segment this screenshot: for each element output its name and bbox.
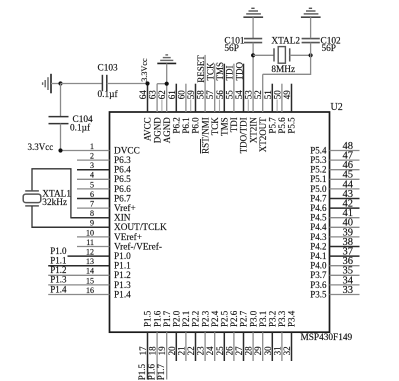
reference designator U2 [331, 102, 343, 113]
svg-text:3.3Vcc: 3.3Vcc [28, 142, 54, 152]
svg-text:15: 15 [86, 276, 94, 285]
pin 5 (P6.6) left side [77, 180, 131, 195]
pin 7 (Vref+) left side [77, 200, 136, 215]
node junction dot at 3.3Vcc/C103 [58, 81, 62, 85]
svg-text:17: 17 [138, 346, 148, 356]
wire ground to C102 [310, 17, 312, 38]
pin 8 (XIN) left side [71, 209, 131, 224]
pin 34 (P3.6) right side [310, 275, 359, 290]
svg-text:P1.5: P1.5 [143, 310, 153, 327]
svg-text:4: 4 [90, 171, 94, 180]
svg-text:VEref+: VEref+ [114, 232, 142, 243]
pin 51 (P5.7) top side [263, 84, 278, 134]
svg-text:P6.1: P6.1 [181, 117, 191, 133]
svg-text:P1.2: P1.2 [50, 265, 66, 275]
svg-text:22: 22 [186, 346, 196, 355]
wire C103 right plate to pin64 junction [107, 83, 148, 85]
svg-text:29: 29 [253, 346, 263, 356]
svg-text:XIN: XIN [114, 214, 131, 224]
svg-text:P3.1: P3.1 [258, 311, 268, 327]
pin 42 (P4.6) right side [310, 199, 359, 214]
pin 17 (P1.5) bottom side [137, 310, 153, 380]
capacitor C101 56P [224, 37, 262, 54]
svg-text:P4.6: P4.6 [310, 203, 327, 213]
pin 50 (P5.6) top side [272, 84, 287, 134]
svg-text:9: 9 [90, 219, 94, 228]
svg-text:33: 33 [343, 285, 354, 296]
svg-text:6: 6 [90, 190, 94, 199]
pin 60 (P6.1) top side [176, 84, 191, 134]
wire 3.3Vcc node down to C104 [60, 84, 62, 117]
pin 49 (P5.5) top side [282, 84, 297, 134]
pin 23 (P2.3) bottom side [196, 310, 211, 361]
svg-text:P2.4: P2.4 [210, 310, 220, 327]
svg-text:TDI: TDI [225, 66, 235, 81]
svg-text:1: 1 [90, 142, 94, 151]
svg-text:XT2OUT: XT2OUT [258, 117, 268, 152]
svg-text:3.3Vcc: 3.3Vcc [140, 58, 149, 82]
pin 59 (P6.0) top side [186, 84, 201, 134]
svg-text:P6.5: P6.5 [114, 175, 131, 185]
svg-text:25: 25 [215, 346, 225, 356]
svg-text:Vref-/VEref-: Vref-/VEref- [114, 241, 162, 252]
node junction dot at pin 1 (DVCC) [58, 148, 62, 152]
pin 14 (P1.2) left side [48, 265, 131, 281]
svg-text:P1.2: P1.2 [114, 271, 131, 281]
svg-text:23: 23 [196, 346, 206, 356]
pin 3 (P6.4) left side [77, 161, 131, 176]
svg-text:49: 49 [282, 90, 292, 100]
svg-text:52: 52 [253, 90, 263, 99]
svg-text:P2.6: P2.6 [229, 310, 239, 327]
ground (above C102) [301, 8, 321, 17]
svg-text:P4.1: P4.1 [310, 251, 326, 261]
wire XTAL1 bottom to pin 9 (XOUT/TCLK) [32, 206, 110, 227]
svg-text:8: 8 [90, 209, 94, 218]
wire pin 63 to pin 62 link [157, 83, 167, 85]
pin 52 (XT2OUT) top side [253, 74, 268, 152]
svg-text:XTAL2: XTAL2 [271, 37, 300, 47]
svg-text:AVCC: AVCC [143, 117, 153, 141]
svg-text:28: 28 [244, 346, 254, 356]
svg-text:50: 50 [272, 90, 282, 100]
svg-text:11: 11 [86, 238, 94, 247]
svg-text:27: 27 [234, 346, 244, 356]
svg-text:P6.3: P6.3 [114, 156, 131, 166]
pin 30 (P3.2) bottom side [263, 311, 278, 361]
svg-text:P2.3: P2.3 [200, 310, 210, 327]
pin 16 (P1.4) left side [48, 284, 131, 300]
svg-text:0.1µf: 0.1µf [98, 89, 119, 100]
svg-text:P4.5: P4.5 [310, 213, 327, 223]
pin 37 (P4.1) right side [310, 247, 359, 262]
svg-text:P3.0: P3.0 [248, 310, 258, 327]
svg-text:TMS: TMS [215, 62, 225, 81]
pin 20 (P2.0) bottom side [167, 310, 182, 361]
pin 22 (P2.2) bottom side [186, 311, 201, 361]
ground (above C101) [243, 8, 263, 17]
pin 32 (P3.4) bottom side [282, 310, 297, 361]
svg-text:16: 16 [86, 286, 94, 295]
svg-text:56: 56 [215, 90, 225, 100]
svg-text:AGND: AGND [162, 117, 172, 143]
capacitor C102 56P [302, 37, 341, 54]
svg-text:P6.4: P6.4 [114, 166, 131, 176]
pin 19 (P1.7) bottom side [156, 310, 172, 380]
pin 53 (XT2IN) top side [244, 55, 259, 143]
svg-text:P4.2: P4.2 [310, 241, 326, 251]
node junction dot at pin 62 (AGND) [165, 82, 169, 86]
svg-text:30: 30 [263, 346, 273, 356]
svg-text:0.1µf: 0.1µf [70, 123, 91, 134]
svg-text:58: 58 [196, 90, 206, 100]
svg-text:P3.7: P3.7 [310, 270, 327, 280]
svg-text:P1.6: P1.6 [147, 363, 157, 380]
svg-text:24: 24 [205, 346, 215, 356]
crystal XTAL2 8MHz [271, 37, 300, 75]
svg-text:13: 13 [86, 257, 94, 266]
svg-text:P1.0: P1.0 [50, 246, 67, 256]
svg-text:56P: 56P [322, 44, 336, 54]
svg-text:P2.2: P2.2 [191, 311, 201, 327]
svg-text:TCK: TCK [210, 117, 220, 136]
svg-text:5: 5 [90, 180, 94, 189]
pin 15 (P1.3) left side [48, 275, 131, 291]
svg-text:P2.0: P2.0 [172, 310, 182, 327]
pin 24 (P2.4) bottom side [205, 310, 220, 361]
pin 56 (TMS) top side [215, 62, 230, 136]
svg-text:61: 61 [167, 90, 177, 99]
wire XTAL2 right plate to node [290, 54, 311, 56]
svg-text:P6.0: P6.0 [191, 117, 201, 134]
svg-text:P5.6: P5.6 [277, 117, 287, 134]
svg-text:P1.1: P1.1 [50, 256, 66, 266]
wire ghost stubs (scan artifacts) top edge [162, 100, 277, 112]
svg-text:P3.4: P3.4 [287, 310, 297, 327]
svg-text:31: 31 [272, 346, 282, 355]
svg-text:14: 14 [86, 267, 94, 276]
pin 9 (XOUT/TCLK) left side [32, 219, 167, 234]
svg-text:P1.5: P1.5 [137, 363, 147, 380]
pin 12 (P1.0) left side [50, 246, 131, 262]
svg-text:12: 12 [86, 248, 94, 257]
svg-text:P1.3: P1.3 [114, 281, 131, 291]
svg-text:P6.7: P6.7 [114, 194, 131, 204]
svg-text:10: 10 [86, 228, 94, 237]
svg-text:P4.4: P4.4 [310, 222, 327, 232]
svg-text:51: 51 [263, 90, 273, 99]
pin 63 (DGND) top side [148, 84, 163, 144]
pin 11 (Vref-/VEref-) left side [77, 238, 162, 253]
svg-text:62: 62 [157, 90, 167, 99]
svg-text:TDO/TDI: TDO/TDI [239, 117, 249, 153]
wire node to XTAL2 left plate [253, 54, 274, 56]
pin 62 (AGND) top side [157, 84, 172, 144]
pin 29 (P3.1) bottom side [253, 311, 268, 361]
pin 39 (P4.3) right side [310, 227, 359, 242]
svg-text:32kHz: 32kHz [42, 198, 67, 208]
svg-text:Vref+: Vref+ [114, 203, 136, 214]
pin 13 (P1.1) left side [48, 256, 131, 272]
svg-text:P3.3: P3.3 [277, 310, 287, 327]
node junction dot at pin 64 (AVCC) [145, 81, 149, 85]
svg-text:60: 60 [176, 90, 186, 100]
wire rail to C103 left plate [61, 83, 103, 85]
svg-text:18: 18 [148, 346, 158, 356]
svg-text:59: 59 [186, 90, 196, 100]
svg-text:P1.7: P1.7 [156, 363, 166, 380]
svg-text:RESET: RESET [196, 55, 206, 83]
svg-text:P1.3: P1.3 [50, 275, 67, 285]
svg-text:P1.4: P1.4 [50, 284, 67, 294]
wire XT2OUT node down and over to pin 52 [263, 55, 311, 74]
pin 45 (P5.1) right side [310, 170, 359, 185]
svg-text:54: 54 [234, 90, 244, 100]
pin 43 (P4.7) right side [310, 189, 359, 204]
svg-text:P5.0: P5.0 [310, 184, 327, 194]
pin 31 (P3.3) bottom side [272, 310, 287, 361]
capacitor C103 0.1uf [98, 64, 119, 100]
pin 35 (P3.7) right side [310, 266, 359, 281]
svg-text:P3.5: P3.5 [310, 289, 327, 299]
wire C104 down to pin 1 node [60, 124, 62, 151]
svg-text:63: 63 [148, 90, 158, 100]
ground (left, rotated) [43, 74, 51, 94]
pin 61 (P6.2) top side [167, 84, 182, 134]
svg-text:32: 32 [282, 346, 292, 355]
svg-text:P4.3: P4.3 [310, 232, 327, 242]
wire C101 to node XT2IN [252, 43, 254, 56]
svg-text:DGND: DGND [152, 117, 162, 143]
svg-text:P1.1: P1.1 [114, 262, 131, 272]
pin 21 (P2.1) bottom side [176, 311, 191, 361]
pin 40 (P4.4) right side [310, 218, 359, 233]
svg-text:2: 2 [90, 152, 94, 161]
svg-text:RST/NMI: RST/NMI [200, 117, 210, 154]
svg-text:8MHz: 8MHz [271, 65, 295, 75]
svg-text:P5.2: P5.2 [310, 165, 326, 175]
svg-text:P5.7: P5.7 [268, 117, 278, 134]
svg-text:C103: C103 [98, 64, 118, 74]
pin 41 (P4.5) right side [310, 208, 359, 223]
svg-text:19: 19 [157, 346, 167, 356]
svg-text:P6.6: P6.6 [114, 185, 131, 195]
pin 47 (P5.3) right side [310, 151, 359, 166]
svg-text:P3.2: P3.2 [268, 311, 278, 327]
svg-text:XT2IN: XT2IN [248, 117, 258, 143]
pin 10 (VEref+) left side [77, 228, 142, 243]
svg-text:TDO: TDO [234, 62, 244, 81]
pin 33 (P3.5) right side [310, 285, 359, 300]
svg-text:55: 55 [224, 90, 234, 100]
svg-text:MSP430F149: MSP430F149 [301, 333, 353, 343]
pin 4 (P6.5) left side [77, 171, 131, 186]
svg-text:20: 20 [167, 346, 177, 356]
pin 48 (P5.4) right side [310, 141, 359, 156]
svg-text:XOUT/TCLK: XOUT/TCLK [114, 223, 167, 233]
pin 28 (P3.0) bottom side [244, 310, 259, 361]
svg-text:P2.1: P2.1 [181, 311, 191, 327]
pin 6 (P6.7) left side [77, 190, 131, 205]
pin 2 (P6.3) left side [77, 152, 131, 167]
svg-text:53: 53 [244, 90, 254, 100]
pin 54 (TDO/TDI) top side [234, 62, 249, 154]
svg-text:56P: 56P [224, 44, 238, 54]
pin 36 (P4.0) right side [310, 256, 359, 271]
svg-text:64: 64 [138, 90, 148, 100]
wire ground to node (3.3Vcc rail left stub) [51, 83, 61, 85]
svg-text:P5.3: P5.3 [310, 155, 327, 165]
wire ground to C101 [252, 17, 254, 38]
node junction dot XT2OUT [309, 53, 313, 57]
pin 55 (TDI) top side [224, 64, 239, 133]
pin 1 (DVCC) left side [61, 142, 140, 157]
part number MSP430F149 [301, 333, 353, 343]
capacitor C104 0.1uf [49, 115, 93, 134]
pin 57 (TCK) top side [205, 62, 220, 135]
wire ground stem down to pin 62 [166, 63, 168, 83]
svg-text:21: 21 [176, 346, 186, 355]
svg-text:TMS: TMS [220, 117, 230, 136]
svg-text:57: 57 [205, 90, 215, 100]
wire C102 to node [310, 43, 312, 56]
svg-text:P1.7: P1.7 [162, 310, 172, 327]
svg-text:P4.7: P4.7 [310, 193, 327, 203]
svg-text:P5.5: P5.5 [287, 117, 297, 134]
wire pin 8 (XIN) loop up [32, 169, 110, 218]
pin 46 (P5.2) right side [310, 160, 359, 175]
svg-text:P5.4: P5.4 [310, 145, 327, 155]
svg-text:TCK: TCK [206, 62, 216, 81]
svg-text:P1.4: P1.4 [114, 290, 131, 300]
svg-text:P6.2: P6.2 [172, 117, 182, 133]
svg-text:P1.0: P1.0 [114, 252, 131, 262]
pin 26 (P2.6) bottom side [224, 310, 239, 361]
svg-text:26: 26 [224, 346, 234, 356]
ground (top center, for DGND/AGND) [157, 55, 176, 64]
svg-text:P2.5: P2.5 [220, 310, 230, 327]
svg-text:P3.6: P3.6 [310, 280, 327, 290]
svg-text:TDI: TDI [229, 117, 239, 132]
svg-text:U2: U2 [331, 102, 343, 113]
net label 3.3Vcc (horizontal) [28, 142, 54, 152]
svg-text:P5.1: P5.1 [310, 174, 326, 184]
svg-text:P2.7: P2.7 [239, 310, 249, 327]
pin 64 (AVCC) top side [138, 84, 153, 141]
pin 44 (P5.0) right side [310, 179, 359, 194]
pin 25 (P2.5) bottom side [215, 310, 230, 361]
IC U2 MSP430F149 body [110, 112, 330, 332]
net label 3.3Vcc (rotated, at pin 64) [140, 58, 149, 82]
pin 38 (P4.2) right side [310, 237, 359, 252]
svg-text:P1.6: P1.6 [152, 310, 162, 327]
svg-text:7: 7 [90, 200, 94, 209]
pin 58 (RST/NMI) top side [196, 55, 211, 154]
svg-text:DVCC: DVCC [114, 146, 140, 156]
crystal XTAL1 32kHz [23, 189, 71, 208]
svg-text:3: 3 [90, 161, 94, 170]
pin 18 (P1.6) bottom side [147, 310, 163, 380]
pin 27 (P2.7) bottom side [234, 310, 249, 361]
node junction dot XT2IN [251, 53, 255, 57]
svg-text:P4.0: P4.0 [310, 261, 327, 271]
